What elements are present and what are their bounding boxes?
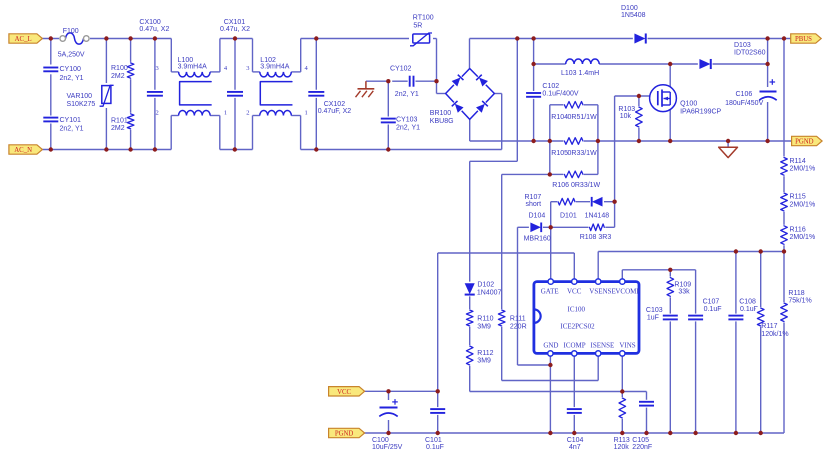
choke L100 [156,57,228,117]
capacitor CY103 [380,116,420,131]
svg-text:R116: R116 [790,226,806,233]
svg-text:0.47uF, X2: 0.47uF, X2 [318,108,352,115]
junction at (106.4,38.5) [104,36,108,40]
junction at (767.6,38.5) [765,36,769,40]
svg-text:R111: R111 [510,316,526,323]
svg-text:0.1uF: 0.1uF [740,306,758,313]
wire RT100 to bridge corner [430,39,446,94]
svg-text:D102: D102 [477,282,494,289]
wire VINS wire [470,391,647,393]
svg-text:C101: C101 [425,437,442,444]
resistor R112 [465,345,494,366]
svg-text:R106 0R33/1W: R106 0R33/1W [552,182,600,189]
junction at (234.8,149.5) [233,147,237,151]
svg-text:R113: R113 [614,437,630,444]
svg-text:VSENSE: VSENSE [589,287,615,295]
thermistor RT100 [409,15,434,48]
svg-text:D104: D104 [529,212,546,219]
junction at (388.3,149.5) [386,147,390,151]
wire VCOMP bus [622,270,695,317]
net flag PGND right [792,136,823,145]
wire R109 C103 rail [669,270,671,433]
wire L102 bottom stubs [253,116,301,150]
wire shunt top row [550,104,598,106]
wire ICOMP rail [573,353,575,433]
wire VCC flag bus [362,390,438,392]
svg-text:VCC: VCC [337,389,351,396]
svg-text:F100: F100 [63,28,79,35]
wire Q100 drain rail [669,64,671,92]
wire output divider rail [783,39,785,252]
svg-text:KBU8G: KBU8G [430,118,454,125]
resistor R114 [779,157,815,177]
net flag AC_N [9,145,43,154]
junction at (533.6,38.5) [531,36,535,40]
svg-text:2: 2 [156,110,159,117]
wire C100 rail [388,391,390,433]
wire ISENSE wire [502,353,599,380]
wire VSENSE bus [598,252,784,282]
junction at (316.3,38.5) [314,36,318,40]
junction at (760.7,433.0) [759,431,763,435]
svg-text:2M2: 2M2 [111,125,125,132]
svg-text:0R33/1W: 0R33/1W [568,150,598,157]
svg-text:3.9mH4A: 3.9mH4A [178,63,208,70]
capacitor CX102 [307,90,351,115]
svg-text:0.1uF: 0.1uF [704,306,722,313]
junction at (767.6,141.0) [765,139,769,143]
wire shunt bottom row [502,173,598,175]
resistor R105 [551,136,597,157]
pin VCC [572,279,577,284]
svg-text:0.1uF/400V: 0.1uF/400V [542,91,579,98]
svg-text:CY102: CY102 [390,65,412,72]
wire C107 rail [695,317,697,433]
junction at (735.9,251.5) [734,249,738,253]
wire D104 row [518,226,615,228]
svg-text:C105: C105 [632,437,649,444]
junction at (695.6,433.0) [693,431,697,435]
junction at (550.7,227.3) [549,225,553,229]
net flag PBUS [791,34,822,43]
diode D101 [560,196,609,219]
wire C101 rail [437,391,439,433]
wire PGND mid bus [470,140,792,142]
wire C104 rail [573,432,575,434]
op-amp U1 IC100 ICE2PCS02 [534,282,640,354]
svg-text:3: 3 [246,65,249,72]
svg-text:10k: 10k [620,113,632,120]
svg-text:VCC: VCC [567,287,582,295]
svg-text:0R51/1W: 0R51/1W [568,114,598,121]
svg-text:1: 1 [305,110,308,117]
wire top bus C102 junction rail [470,39,518,284]
resistor R109 [665,277,691,298]
svg-text:PGND: PGND [795,139,814,146]
svg-text:33k: 33k [678,289,690,296]
capacitor C106 electrolytic [725,79,780,107]
svg-text:C100: C100 [372,437,389,444]
junction at (50.8,38.5) [49,36,53,40]
junction at (549.8,174.4) [548,172,552,176]
wire L100 bottom stubs [171,116,220,150]
resistor R100 [111,62,136,80]
junction at (646.5,433.0) [644,431,648,435]
wire C108 rail [735,252,737,434]
pin VCOMP [620,279,625,284]
wire L102 top stubs [253,39,301,72]
svg-text:Q100: Q100 [680,101,697,108]
svg-text:R117: R117 [761,323,777,330]
svg-text:GND: GND [543,342,558,350]
wire AC_N bus right [301,149,502,151]
svg-text:C102: C102 [542,83,559,90]
junction at (436.5,81.2) [434,79,438,83]
junction at (550.4,433.0) [548,431,552,435]
junction at (549.8,141.0) [548,139,552,143]
svg-text:3.9mH4A: 3.9mH4A [260,63,290,70]
svg-text:R109: R109 [674,281,691,288]
svg-text:C103: C103 [646,307,663,314]
net flag PGND bottom [329,428,365,437]
svg-text:1N5408: 1N5408 [621,12,646,19]
svg-text:5R: 5R [413,23,422,30]
junction at (638.9,96.0) [637,94,641,98]
svg-text:BR100: BR100 [430,110,452,117]
pin GND [548,351,553,356]
wire gate row [615,95,658,97]
junction at (728.1,141.0) [726,139,730,143]
svg-text:VINS: VINS [619,342,635,350]
junction at (670.2,64.0) [668,62,672,66]
wire AC_L bus left section [42,38,171,40]
diode D102 [464,282,502,297]
junction at (154.9,149.5) [153,147,157,151]
choke L102 [246,57,308,117]
resistor R106 [552,169,600,188]
wire shunt ladder left [549,105,551,175]
svg-text:R112: R112 [477,350,493,357]
net flag AC_L [9,34,43,43]
wire R117 rail [760,252,762,434]
junction at (130.6,149.5) [128,147,132,151]
pin ISENSE [596,351,601,356]
svg-text:0.1uF: 0.1uF [426,444,444,451]
svg-text:L103 1.4mH: L103 1.4mH [561,70,599,77]
junction at (130.6,38.5) [128,36,132,40]
wire GND pin rail [549,353,551,433]
capacitor C105 [632,400,655,451]
wire VCC bus [438,253,575,391]
svg-text:2M0/1%: 2M0/1% [790,201,816,208]
wire bottom PGND bus [362,432,784,434]
svg-text:2n2, Y1: 2n2, Y1 [395,91,419,98]
svg-text:RT100: RT100 [413,15,434,22]
svg-text:AC_N: AC_N [14,147,32,154]
wire R106 to R111 rail [501,174,503,380]
wire CX101 rail [234,39,236,150]
wire C102 rail [533,39,535,142]
bridge rectifier BR100 [430,69,495,126]
svg-text:R115: R115 [790,194,806,201]
svg-text:0.47u, X2: 0.47u, X2 [139,26,169,33]
diode D104 [524,212,551,242]
svg-text:CY100: CY100 [60,66,82,73]
junction at (154.9,38.5) [153,36,157,40]
resistor R111 [497,309,527,330]
svg-text:R101: R101 [111,117,128,124]
svg-text:R110: R110 [477,316,493,323]
svg-text:PBUS: PBUS [795,36,812,43]
svg-text:ICE2PCS02: ICE2PCS02 [560,322,595,330]
capacitor C101 [425,407,446,451]
wire D103 to C106 rail [767,39,769,65]
varistor VAR100 [67,83,116,108]
svg-text:R105: R105 [551,150,568,157]
svg-text:2n2, Y1: 2n2, Y1 [60,126,84,133]
resistor R115 [779,192,815,212]
svg-text:short: short [526,201,542,208]
resistor R118 [779,290,812,322]
svg-text:1: 1 [224,110,227,117]
pin VSENSE [596,279,601,284]
wire CX100 rail [154,39,156,150]
junction at (388.5,391.3) [386,389,390,393]
svg-text:1N4148: 1N4148 [585,213,610,220]
svg-text:2n2, Y1: 2n2, Y1 [396,125,420,132]
resistor R113 [614,397,630,451]
junction at (235,38.5) [233,36,237,40]
svg-text:ICOMP: ICOMP [564,342,586,350]
pin GATE [548,279,553,284]
resistor R103 [618,106,644,128]
wire R113 rail [621,353,623,433]
junction at (388.3,81.2) [386,79,390,83]
wire rectified bus top right [470,38,792,40]
resistor R117 [756,307,789,338]
junction at (670.2,141.0) [668,139,672,143]
resistor R101 [111,113,136,132]
resistor R110 [465,309,494,330]
wire R107 row [551,201,615,203]
junction at (50.8,149.5) [49,147,53,151]
wire C105 rail [646,392,648,434]
svg-text:CX102: CX102 [324,101,346,108]
wire CX102 rail [315,39,317,150]
svg-text:IDT02S60: IDT02S60 [734,50,766,57]
wire AC_L bus to RT100 [301,38,413,40]
svg-text:180uF/450V: 180uF/450V [725,100,763,107]
wire CY100 CY101 rail [50,39,52,150]
svg-text:3M9: 3M9 [477,358,491,365]
svg-text:3: 3 [156,65,159,72]
resistor R107 [525,194,577,208]
wire CY103 rail [387,81,389,149]
wire Q100 source rail [669,105,671,141]
wire R100 R101 rail [130,39,132,150]
junction at (597.9,141.0) [596,139,600,143]
wire VAR100 rail [105,39,107,150]
capacitor C100 electrolytic [372,399,403,451]
svg-text:ISENSE: ISENSE [591,342,615,350]
junction at (614.6,201.7) [612,200,616,204]
wire gate rail [614,96,616,227]
junction at (106.4,149.5) [104,147,108,151]
capacitor CX101 [220,19,250,98]
capacitor C104 [566,407,584,451]
svg-text:D101: D101 [560,213,577,220]
net flag VCC [329,387,365,396]
svg-text:220R: 220R [510,323,527,330]
wire C106 rail [767,64,769,141]
capacitor CX100 [139,19,169,98]
wire earth stub [366,80,388,82]
junction at (316.3,149.5) [314,147,318,151]
junction at (437.7,391.3) [436,389,440,393]
wire gate pin rail [550,202,552,282]
junction at (767.6,64.0) [765,62,769,66]
svg-text:1uF: 1uF [647,315,659,322]
pin VINS [620,351,625,356]
svg-text:IC100: IC100 [568,305,586,313]
svg-text:120k/1%: 120k/1% [761,331,788,338]
svg-text:C106: C106 [736,91,753,98]
svg-text:75k/1%: 75k/1% [788,298,811,305]
svg-text:C108: C108 [739,299,756,306]
wire AC_N bus left [42,149,171,151]
wire D104 left rail [518,227,551,365]
earth ground 2 [719,147,738,157]
junction at (735.9,433.0) [734,431,738,435]
junction at (622.3,433.0) [620,431,624,435]
wire AC_L bus middle section [220,38,253,40]
diode D103 [698,42,766,70]
svg-text:C104: C104 [567,437,584,444]
svg-text:R100: R100 [111,65,128,72]
svg-text:MBR160: MBR160 [524,236,551,243]
svg-text:120k: 120k [614,444,630,451]
svg-text:3M9: 3M9 [477,323,491,330]
junction at (670.3,433.0) [668,431,672,435]
svg-text:R108 3R3: R108 3R3 [580,234,612,241]
resistor R108 [580,222,612,241]
wire R118 rail [783,252,785,434]
capacitor CY100 [42,66,83,82]
fuse F100 [58,28,90,58]
capacitor C103 [646,307,679,322]
junction at (517.3,38.5) [515,36,519,40]
svg-text:0.47u, X2: 0.47u, X2 [220,26,250,33]
svg-text:R114: R114 [790,158,806,165]
wire bridge right to AC_N rail [494,94,501,150]
svg-text:VAR100: VAR100 [67,93,93,100]
junction at (638.9,141.0) [637,139,641,143]
junction at (533.6,64.0) [531,62,535,66]
svg-text:2M0/1%: 2M0/1% [790,234,816,241]
svg-text:5A,250V: 5A,250V [58,52,85,59]
junction at (533.6,141.0) [531,139,535,143]
transistor Q100 [650,85,722,116]
capacitor C108 [727,299,758,322]
capacitor CY101 [42,116,83,133]
svg-text:AC_L: AC_L [15,36,32,43]
wire AC_N bus mid [220,149,253,151]
capacitor CY102 [390,65,419,98]
svg-text:PGND: PGND [335,431,354,438]
pin ICOMP [572,351,577,356]
svg-text:2: 2 [246,110,249,117]
diode D100 [621,5,648,44]
svg-text:220nF: 220nF [632,444,652,451]
svg-text:R104: R104 [551,114,568,121]
resistor R104 [551,100,597,121]
svg-text:C107: C107 [703,299,720,306]
wire CY102 row [392,80,436,82]
junction at (784,38.5) [782,36,786,40]
wire bridge top to bus [469,39,471,69]
junction at (760.7,251.5) [759,249,763,253]
svg-text:4n7: 4n7 [569,444,581,451]
junction at (388.5,433.0) [386,431,390,435]
svg-text:GATE: GATE [541,287,559,295]
junction at (622.3,391.5) [620,389,624,393]
junction at (550.4,365) [548,363,552,367]
junction at (574.3,433.0) [572,431,576,435]
svg-text:VCOMP: VCOMP [615,287,640,295]
svg-text:S10K275: S10K275 [67,101,96,108]
wire shunt ladder right [597,105,599,175]
svg-text:D100: D100 [621,5,638,12]
wire R103 rail [638,96,640,141]
capacitor C102 [525,83,579,99]
svg-text:D103: D103 [734,42,751,49]
earth ground [356,81,375,97]
inductor L103 [561,59,599,77]
svg-text:2n2, Y1: 2n2, Y1 [60,75,84,82]
resistor R116 [779,225,815,246]
svg-text:CY101: CY101 [60,117,82,124]
wire bridge bottom to PGND bus [469,119,471,141]
junction at (784,251.5) [782,249,786,253]
svg-text:R118: R118 [788,290,804,297]
svg-text:IPA6R199CP: IPA6R199CP [680,109,721,116]
wire L100 top stubs [171,39,220,72]
svg-text:2M2: 2M2 [111,73,125,80]
junction at (437.7,433.0) [436,431,440,435]
junction at (670.3,269.8) [668,268,672,272]
svg-text:10uF/25V: 10uF/25V [372,444,403,451]
wire L103 row [534,63,768,65]
svg-text:CY103: CY103 [396,116,418,123]
wire D102 divider rail [469,295,471,391]
svg-text:2M0/1%: 2M0/1% [790,166,816,173]
capacitor C107 [687,299,721,322]
wire earth2 stub [727,141,729,147]
svg-text:1N4007: 1N4007 [477,289,502,296]
